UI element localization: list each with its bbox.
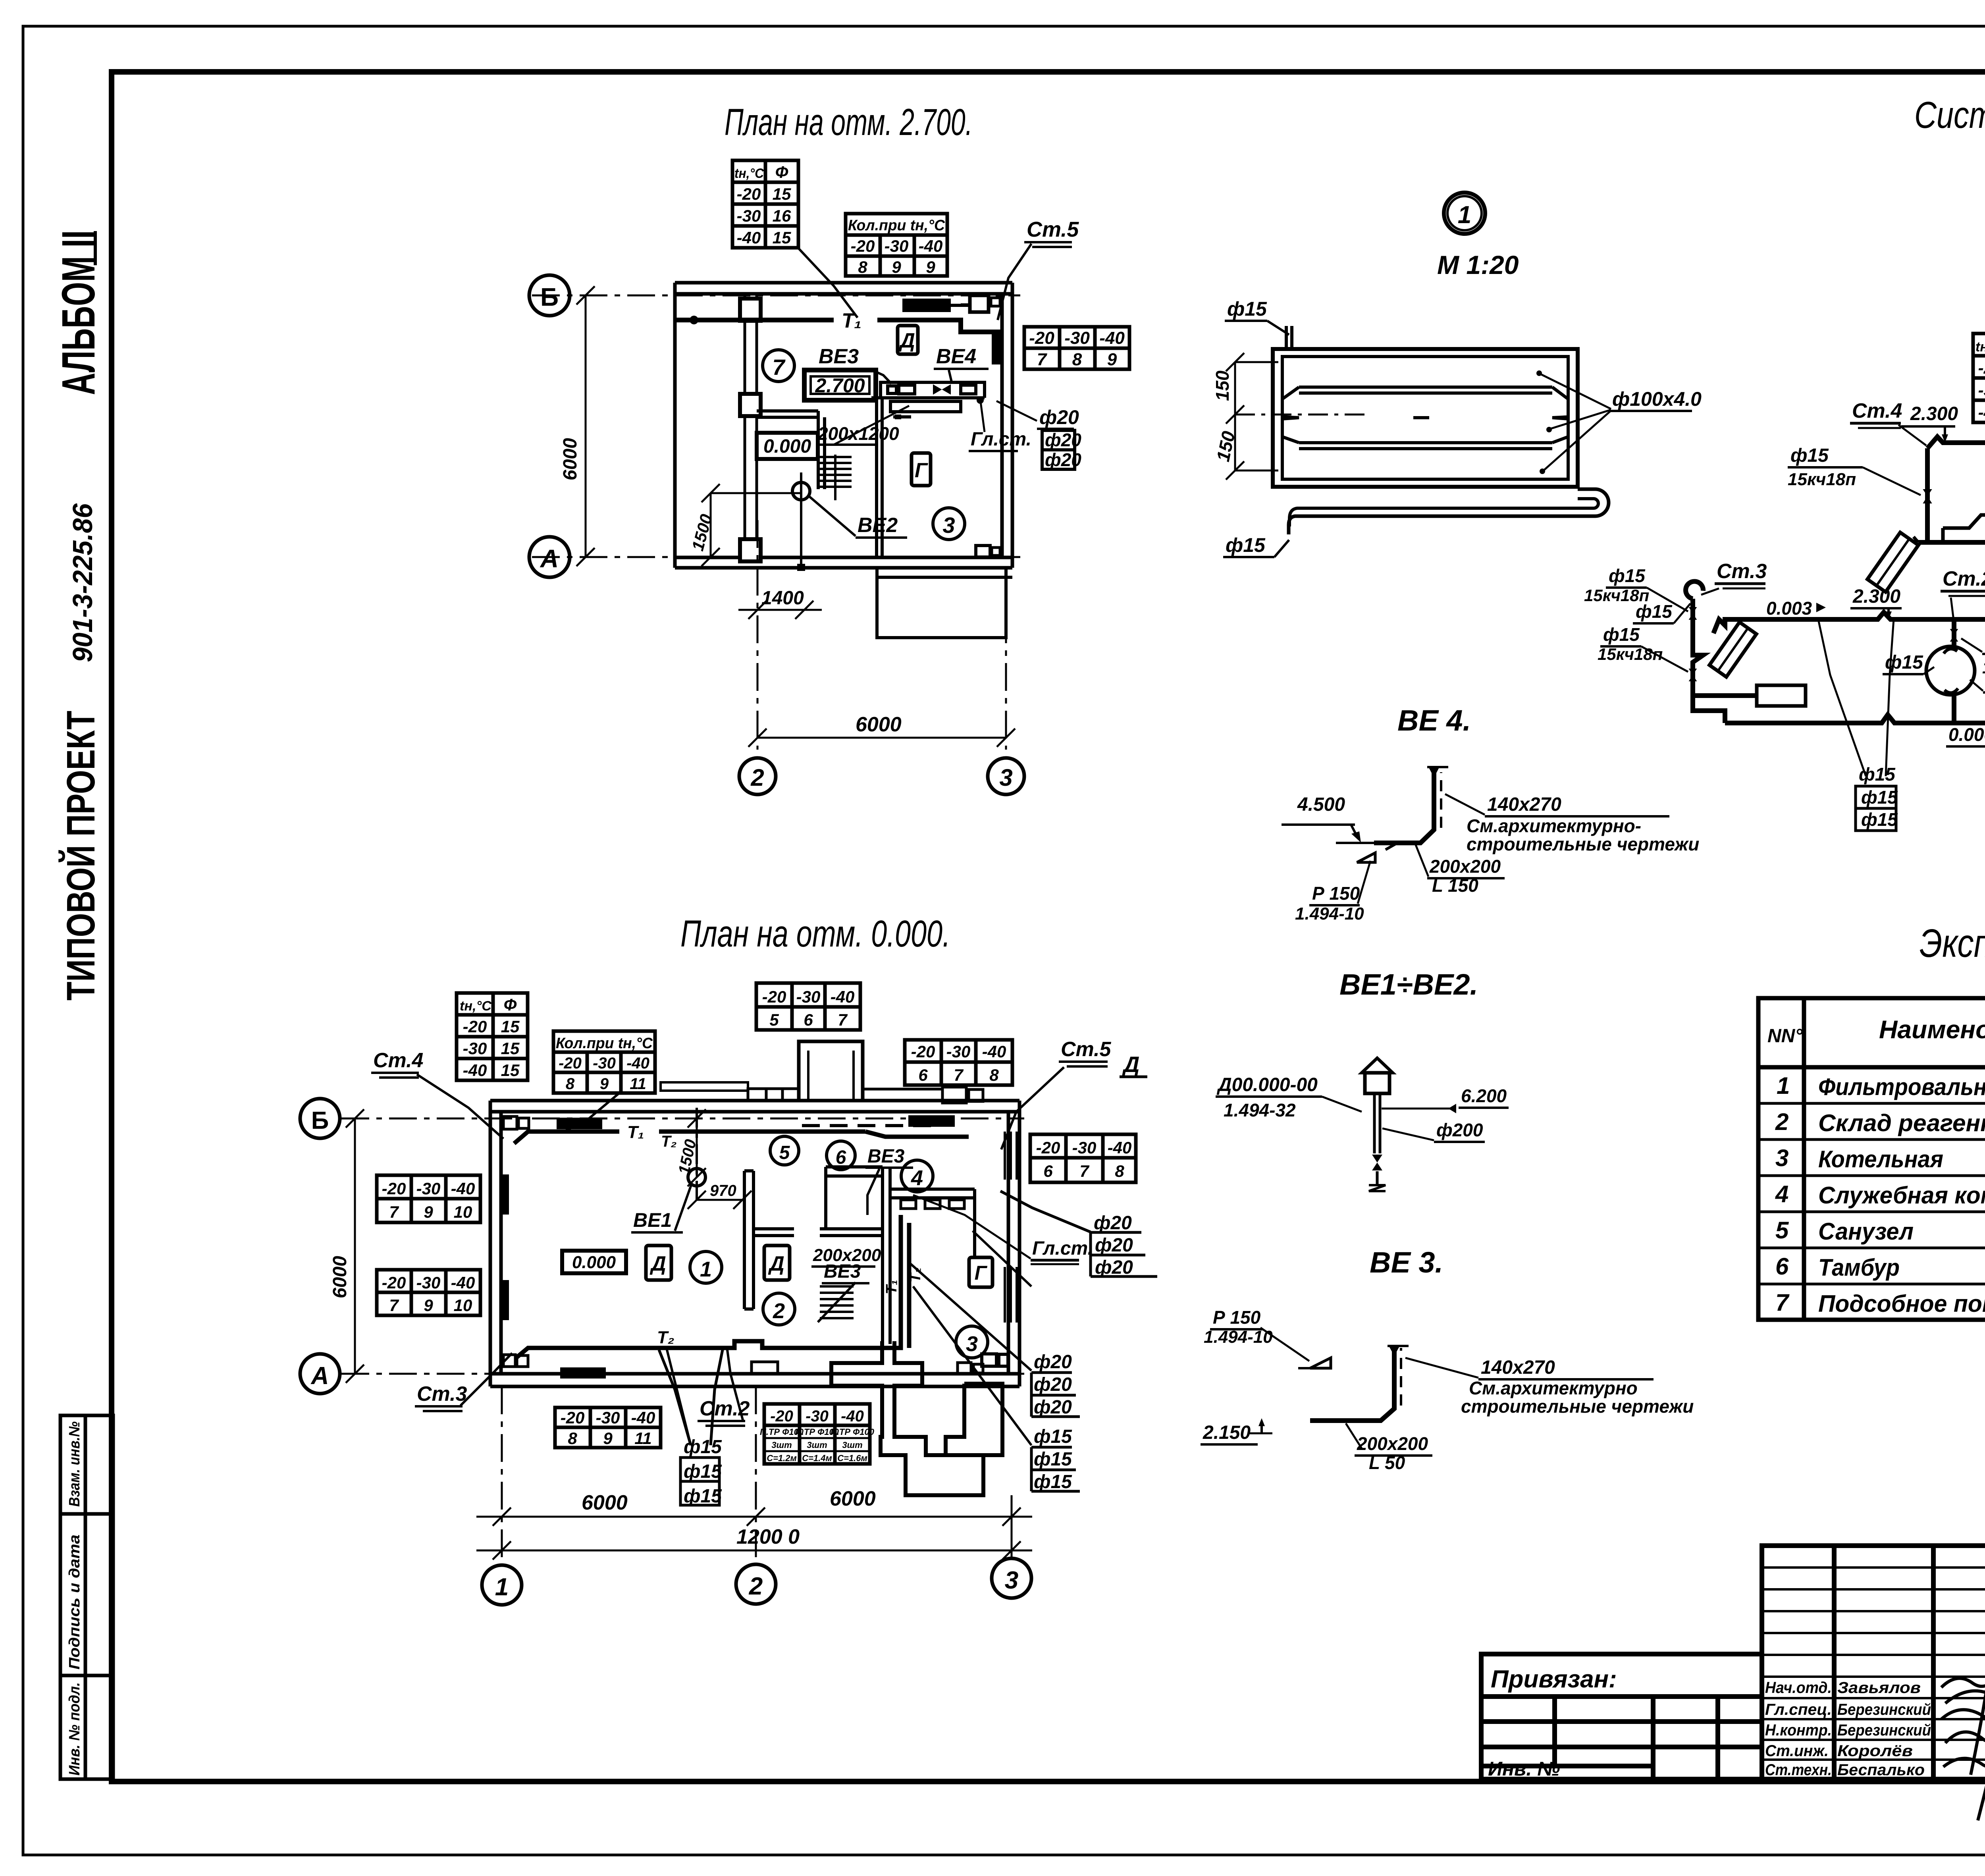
leader from table to pipe	[798, 248, 858, 318]
svg-text:Подсобное помещение: Подсобное помещение	[1818, 1290, 1985, 1317]
svg-text:6000: 6000	[560, 438, 581, 480]
svg-text:6000: 6000	[856, 713, 902, 736]
svg-text:2.700: 2.700	[815, 374, 865, 397]
svg-text:М 1:20: М 1:20	[1437, 250, 1519, 280]
svg-text:А: А	[310, 1362, 329, 1390]
svg-text:200х200: 200х200	[813, 1246, 881, 1265]
svg-text:3: 3	[1005, 1567, 1018, 1594]
svg-text:Котельная: Котельная	[1818, 1146, 1943, 1172]
dim 1500 vertical	[701, 484, 802, 566]
pipe T2 bottom run	[516, 1215, 909, 1358]
dim 6000 bottom	[748, 729, 1015, 747]
svg-text:ф15: ф15	[684, 1461, 722, 1482]
room circle 7	[763, 350, 794, 382]
svg-text:7: 7	[389, 1296, 399, 1315]
svg-text:-20: -20	[737, 185, 761, 203]
vertical dim 6000	[346, 1109, 364, 1383]
svg-text:Гл.спец.: Гл.спец.	[1765, 1701, 1832, 1718]
svg-text:Ст.3: Ст.3	[1717, 560, 1767, 583]
svg-text:-30: -30	[737, 206, 761, 225]
svg-text:8: 8	[568, 1429, 577, 1448]
svg-text:2.300: 2.300	[1852, 586, 1900, 607]
axis line A	[532, 556, 1020, 558]
svg-text:11: 11	[630, 1075, 646, 1093]
svg-text:Беспалько: Беспалько	[1837, 1761, 1925, 1779]
svg-text:9: 9	[892, 258, 901, 276]
elevation 6.200	[1382, 1108, 1453, 1110]
svg-text:Инв. №: Инв. №	[1488, 1758, 1560, 1780]
svg-text:Взам. инв.№: Взам. инв.№	[66, 1421, 83, 1507]
leader diagonals to right stacks	[909, 1231, 1031, 1445]
svg-text:См.архитектурно-: См.архитектурно-	[1467, 816, 1641, 836]
corner boxes bottom-left	[503, 1355, 515, 1367]
room4 lower wall	[890, 1188, 975, 1191]
small table right (-20-30-40/7-8-9)	[1024, 327, 1129, 369]
valve bottom	[1372, 1155, 1382, 1170]
wall black bars left	[499, 1174, 509, 1215]
svg-text:3: 3	[942, 513, 955, 538]
svg-text:ТИПОВОЙ ПРОЕКТ: ТИПОВОЙ ПРОЕКТ	[58, 711, 103, 1001]
svg-text:См.архитектурно: См.архитектурно	[1469, 1378, 1638, 1398]
corner boxes top-left	[503, 1116, 517, 1129]
right wall hatch top	[1005, 1132, 1017, 1323]
flag	[1357, 853, 1375, 862]
svg-text:NN°: NN°	[1767, 1026, 1803, 1047]
radiator (black) top	[902, 299, 951, 312]
svg-text:строительные чертежи: строительные чертежи	[1461, 1396, 1694, 1417]
svg-text:-30: -30	[416, 1273, 441, 1292]
sanitary boxes bottom right	[976, 546, 990, 557]
svg-text:Гл.ст.: Гл.ст.	[971, 429, 1031, 450]
svg-text:10: 10	[454, 1296, 472, 1315]
svg-text:Т₁: Т₁	[842, 309, 861, 332]
svg-text:Экспликация помещений.: Экспликация помещений.	[1919, 921, 1985, 966]
svg-text:6000: 6000	[330, 1256, 351, 1298]
svg-text:Ст.техн.: Ст.техн.	[1765, 1761, 1832, 1779]
svg-text:Наименование помещений: Наименование помещений	[1879, 1015, 1985, 1044]
svg-text:-30: -30	[463, 1039, 487, 1058]
svg-text:Р 150: Р 150	[1312, 883, 1360, 904]
left dim 150/150	[1226, 353, 1370, 480]
svg-text:Д00.000-00: Д00.000-00	[1216, 1074, 1318, 1095]
svg-text:ф15: ф15	[1034, 1449, 1072, 1470]
symbol D	[898, 326, 918, 354]
vent chamber shelf	[871, 382, 985, 398]
elevation 2.700 box	[804, 370, 876, 400]
svg-text:9: 9	[424, 1203, 433, 1221]
svg-text:План на отм. 2.700.: План на отм. 2.700.	[725, 101, 973, 143]
svg-text:8: 8	[1072, 350, 1082, 369]
svg-text:901-3-225.86: 901-3-225.86	[67, 503, 98, 662]
lower appendix room	[877, 568, 1012, 638]
svg-text:Инв. № подл.: Инв. № подл.	[66, 1682, 83, 1776]
title block	[1481, 1546, 1985, 1845]
svg-text:-40: -40	[1978, 403, 1985, 422]
svg-text:Д: Д	[898, 329, 915, 352]
svg-text:ф20: ф20	[1045, 449, 1081, 470]
svg-text:ВЕ1: ВЕ1	[633, 1209, 672, 1231]
symbol G	[912, 453, 931, 486]
svg-text:-30: -30	[946, 1042, 971, 1061]
svg-text:Королёв: Королёв	[1837, 1742, 1913, 1760]
svg-text:Т₁: Т₁	[627, 1122, 644, 1142]
svg-text:Р 150: Р 150	[1213, 1307, 1261, 1328]
svg-text:Служебная комната: Служебная комната	[1818, 1182, 1985, 1209]
radiator R2 parallelogram	[1867, 532, 1918, 592]
wall above room2	[826, 1165, 883, 1168]
svg-text:Гл.ст.: Гл.ст.	[1032, 1238, 1093, 1259]
svg-text:Д: Д	[649, 1252, 666, 1275]
svg-text:8: 8	[989, 1066, 999, 1084]
svg-text:ф15: ф15	[1861, 787, 1898, 808]
dim 1400	[738, 601, 822, 619]
svg-text:9: 9	[926, 258, 935, 276]
svg-text:-40: -40	[451, 1273, 475, 1292]
svg-text:3шт: 3шт	[807, 1440, 827, 1450]
svg-text:3шт: 3шт	[771, 1440, 792, 1450]
svg-text:3: 3	[1775, 1145, 1788, 1171]
svg-text:Фильтровальный зал: Фильтровальный зал	[1818, 1074, 1985, 1100]
detail bubble 1	[1444, 193, 1485, 234]
explication table	[1758, 998, 1985, 1320]
svg-text:10: 10	[454, 1203, 472, 1221]
svg-text:-20: -20	[559, 1055, 582, 1072]
vent valve BE4 (filled)	[933, 384, 951, 395]
svg-text:Ст.4: Ст.4	[373, 1049, 424, 1072]
svg-text:1: 1	[495, 1573, 509, 1601]
svg-text:-40: -40	[919, 237, 943, 255]
svg-text:1.494-10: 1.494-10	[1295, 904, 1364, 924]
svg-text:ф20: ф20	[1095, 1235, 1133, 1256]
svg-text:ВЕ3: ВЕ3	[867, 1146, 905, 1167]
svg-text:С=1.2м: С=1.2м	[767, 1453, 797, 1463]
flag	[1310, 1358, 1331, 1368]
svg-text:-20: -20	[1036, 1138, 1060, 1157]
svg-text:Березинский: Березинский	[1837, 1722, 1931, 1739]
svg-text:Привязан:: Привязан:	[1491, 1666, 1617, 1693]
svg-text:5: 5	[779, 1142, 790, 1163]
white box bottom-mid	[752, 1362, 778, 1374]
grid axis 3 vertical	[1005, 568, 1007, 750]
grid bubble 2	[739, 758, 776, 794]
svg-text:Д: Д	[1122, 1052, 1139, 1077]
svg-text:Т₂: Т₂	[661, 1133, 677, 1150]
svg-text:11: 11	[634, 1429, 652, 1448]
svg-text:200х200: 200х200	[1429, 856, 1501, 877]
svg-text:16: 16	[773, 206, 791, 225]
table left T6	[377, 1175, 480, 1222]
svg-text:ф20: ф20	[1034, 1374, 1072, 1395]
svg-text:2: 2	[750, 764, 764, 791]
svg-text:ф20: ф20	[1034, 1397, 1072, 1418]
svg-text:6.200: 6.200	[1461, 1085, 1507, 1106]
svg-text:Ст.5: Ст.5	[1027, 218, 1079, 241]
svg-text:0.000: 0.000	[763, 436, 811, 457]
stack pole	[1373, 1093, 1376, 1153]
svg-text:С=1.6м: С=1.6м	[837, 1453, 867, 1463]
svg-text:-40: -40	[1108, 1138, 1132, 1157]
wall bottom	[675, 556, 1012, 559]
table tn f schematic	[1973, 334, 1985, 422]
svg-text:ф15: ф15	[1226, 534, 1266, 556]
duct and riser	[1310, 1348, 1394, 1421]
svg-text:200х200: 200х200	[1357, 1433, 1428, 1454]
pipe run 0.000 mid	[1918, 536, 1985, 542]
svg-text:7: 7	[954, 1066, 964, 1084]
svg-text:1400: 1400	[761, 588, 804, 609]
svg-text:7: 7	[838, 1010, 848, 1029]
symbol D mid	[764, 1246, 790, 1280]
duct 200x1200	[890, 401, 961, 412]
svg-text:ф20: ф20	[1039, 406, 1079, 428]
svg-text:6: 6	[1043, 1162, 1053, 1180]
svg-text:6000: 6000	[830, 1487, 876, 1510]
left riser St.3	[1693, 599, 1725, 723]
svg-text:ф15: ф15	[1227, 298, 1267, 320]
svg-text:ф15: ф15	[1609, 565, 1646, 586]
elevation 0.000 box	[757, 433, 818, 459]
symbol G right	[969, 1257, 992, 1287]
BE2 riser symbol	[800, 472, 802, 568]
svg-text:0.000: 0.000	[1948, 724, 1985, 745]
svg-text:6: 6	[918, 1066, 928, 1084]
svg-text:А: А	[540, 544, 559, 573]
svg-text:строительные чертежи: строительные чертежи	[1467, 834, 1699, 854]
svg-text:ф20: ф20	[1034, 1352, 1072, 1373]
svg-text:8: 8	[858, 258, 867, 276]
table bottom T8	[555, 1407, 661, 1448]
radiator body	[1273, 349, 1578, 487]
svg-text:3: 3	[999, 764, 1012, 791]
BE1 riser	[696, 1108, 698, 1203]
elevation 0.000 box	[562, 1251, 626, 1273]
axis line B	[532, 295, 1020, 297]
svg-text:9: 9	[600, 1075, 609, 1093]
svg-text:Кол.при tн,°С: Кол.при tн,°С	[848, 217, 945, 234]
svg-text:-30: -30	[796, 987, 821, 1006]
radiator top-right	[908, 1115, 955, 1127]
pipe run 2.300 upper	[1686, 437, 1985, 723]
top-right canopy boxes	[863, 1087, 983, 1103]
svg-text:ВЕ3: ВЕ3	[819, 345, 859, 368]
table kol.pri plan0	[553, 1031, 655, 1093]
table top center	[756, 983, 860, 1030]
svg-text:2.150: 2.150	[1203, 1422, 1251, 1443]
room4 grilles	[901, 1200, 916, 1209]
svg-text:8: 8	[566, 1075, 575, 1093]
svg-text:ВЕ 3.: ВЕ 3.	[1370, 1246, 1443, 1279]
svg-text:ф20: ф20	[1045, 430, 1081, 450]
svg-text:-40: -40	[451, 1179, 475, 1198]
partition wall 1-2 vertical	[744, 1167, 975, 1344]
svg-text:5: 5	[1775, 1217, 1789, 1244]
svg-text:-20: -20	[561, 1408, 585, 1427]
svg-text:15: 15	[773, 185, 791, 203]
svg-text:ф200: ф200	[1436, 1120, 1483, 1140]
table right T5	[1030, 1134, 1136, 1182]
svg-text:-20: -20	[851, 237, 875, 255]
svg-text:ВЕ 4.: ВЕ 4.	[1397, 704, 1471, 737]
dim line 6000+6000	[476, 1508, 1032, 1526]
table tn/f plan0	[457, 993, 528, 1080]
svg-text:7: 7	[1037, 350, 1048, 369]
svg-text:-20: -20	[382, 1273, 406, 1292]
svg-text:15: 15	[501, 1061, 520, 1080]
grid axis 2 vertical	[757, 520, 759, 750]
wall right	[1000, 294, 1004, 557]
privyazan box	[1481, 1654, 1762, 1779]
leader from St.2 area to f15 stack	[667, 1350, 691, 1445]
canopy band top-left	[661, 1082, 748, 1091]
signature table	[1762, 1546, 1985, 1779]
svg-text:Санузел: Санузел	[1818, 1218, 1914, 1245]
return loop pipe	[1289, 489, 1609, 534]
svg-text:7: 7	[1775, 1289, 1790, 1316]
svg-text:3шт: 3шт	[842, 1440, 862, 1450]
svg-text:15кч18п: 15кч18п	[1788, 470, 1856, 489]
table upper right T4	[905, 1040, 1012, 1085]
svg-text:ф15: ф15	[1861, 809, 1898, 830]
small boxes on foundation	[982, 1354, 996, 1366]
svg-text:3: 3	[966, 1332, 978, 1356]
svg-text:Ст.4: Ст.4	[1852, 399, 1902, 422]
axis line B	[341, 1118, 1024, 1120]
grid axis verticals	[501, 1386, 503, 1564]
leader from kol.pri table	[564, 1093, 619, 1132]
f20 bracket stack lower	[1034, 1352, 1072, 1418]
svg-text:Б: Б	[311, 1107, 329, 1134]
svg-text:7: 7	[772, 355, 786, 380]
svg-text:ВЕ1÷ВЕ2.: ВЕ1÷ВЕ2.	[1339, 968, 1478, 1001]
svg-text:8: 8	[1115, 1162, 1124, 1180]
dim line 12000	[476, 1541, 1032, 1560]
svg-text:6: 6	[804, 1010, 813, 1029]
svg-text:Т₁: Т₁	[883, 1280, 900, 1294]
room circles	[690, 1251, 722, 1283]
pipe T1	[675, 320, 994, 332]
svg-text:ВЕ2: ВЕ2	[858, 514, 898, 537]
svg-text:Березинский: Березинский	[1837, 1701, 1931, 1718]
svg-text:-40: -40	[737, 228, 761, 247]
partition vertical	[817, 411, 820, 489]
svg-text:4.500: 4.500	[1297, 794, 1345, 815]
svg-text:6: 6	[1775, 1253, 1789, 1280]
axis line A	[341, 1373, 1024, 1375]
bottom run 0.000	[1725, 715, 1985, 723]
svg-text:Нач.отд.: Нач.отд.	[1765, 1679, 1832, 1697]
svg-text:Ф: Ф	[775, 163, 788, 181]
svg-text:-30: -30	[1064, 328, 1090, 348]
svg-text:П.ТР Ф100: П.ТР Ф100	[831, 1427, 875, 1437]
inlet pipe top-left	[1286, 326, 1292, 349]
building walls	[490, 1101, 1019, 1386]
svg-text:7: 7	[389, 1203, 399, 1221]
roof vent cap	[1362, 1058, 1393, 1073]
svg-text:2.300: 2.300	[1910, 403, 1958, 424]
axis-2 column pilasters	[740, 294, 761, 561]
svg-text:Г: Г	[975, 1262, 988, 1284]
entry steps top	[748, 1089, 799, 1101]
grid bubbles	[482, 1565, 522, 1605]
svg-text:1: 1	[1777, 1072, 1790, 1099]
svg-text:-20: -20	[463, 1017, 487, 1036]
axis bubble B	[529, 275, 570, 316]
dim 970	[688, 1191, 752, 1209]
svg-text:6: 6	[836, 1147, 846, 1168]
duct and riser	[1336, 842, 1376, 844]
svg-text:ф100x4.0: ф100x4.0	[1612, 388, 1702, 410]
sidebar stamp table	[60, 1415, 113, 1779]
svg-text:ф15: ф15	[1790, 445, 1829, 466]
svg-text:ф15: ф15	[1034, 1426, 1072, 1447]
radiator bottom-left	[560, 1367, 606, 1379]
svg-text:1: 1	[1458, 201, 1471, 229]
svg-text:Ст.3: Ст.3	[417, 1382, 467, 1406]
svg-text:-30: -30	[593, 1055, 616, 1072]
svg-text:Завьялов: Завьялов	[1837, 1679, 1921, 1697]
Ct.2 branch	[1952, 619, 1956, 646]
svg-text:970: 970	[710, 1182, 736, 1199]
svg-text:План на отм. 0.000.: План на отм. 0.000.	[680, 913, 950, 955]
small table kol.pri	[846, 214, 947, 276]
svg-text:-30: -30	[596, 1408, 620, 1427]
small table tn/f	[732, 160, 798, 248]
pipe T1 T2 top run	[514, 1132, 969, 1143]
svg-text:-20: -20	[382, 1179, 406, 1198]
svg-text:-20: -20	[762, 987, 786, 1006]
dashed duct over corridor	[802, 1124, 941, 1127]
svg-text:15: 15	[773, 228, 791, 247]
svg-text:150: 150	[1212, 370, 1233, 401]
svg-text:L 150: L 150	[1432, 875, 1478, 896]
svg-text:Д: Д	[768, 1252, 784, 1275]
svg-text:1: 1	[700, 1257, 712, 1281]
svg-text:-40: -40	[841, 1407, 864, 1425]
svg-text:-40: -40	[1099, 328, 1125, 348]
svg-text:15: 15	[501, 1039, 520, 1058]
foundation cross left	[831, 1341, 983, 1495]
svg-text:tн,°С: tн,°С	[1975, 339, 1985, 355]
svg-text:Ст.2: Ст.2	[1943, 567, 1985, 590]
svg-text:9: 9	[603, 1429, 613, 1448]
dim 1500 BE1	[688, 1109, 706, 1186]
svg-text:4: 4	[1775, 1181, 1788, 1207]
svg-text:ф15: ф15	[1636, 601, 1673, 622]
svg-text:-30: -30	[885, 237, 909, 255]
wall left	[673, 283, 677, 568]
svg-text:15кч18п: 15кч18п	[1598, 645, 1663, 663]
partition wall horizontal	[757, 383, 882, 557]
svg-text:Подпись и дата: Подпись и дата	[66, 1535, 83, 1670]
svg-text:-20: -20	[1978, 359, 1985, 377]
svg-text:9: 9	[1107, 350, 1117, 369]
radiator connect left	[1693, 693, 1757, 698]
foundation block right	[946, 1384, 1002, 1455]
grid bubble 3	[988, 758, 1024, 794]
svg-text:-40: -40	[831, 987, 855, 1006]
svg-text:1.494-32: 1.494-32	[1224, 1100, 1296, 1120]
svg-text:ВЕ4: ВЕ4	[936, 345, 976, 368]
dense table T9	[764, 1404, 870, 1464]
svg-text:tн,°С: tн,°С	[734, 166, 764, 181]
svg-text:-30: -30	[416, 1179, 441, 1198]
svg-text:7: 7	[1079, 1162, 1089, 1180]
room circle 3	[933, 508, 965, 540]
svg-text:4: 4	[911, 1166, 923, 1190]
svg-text:-20: -20	[1029, 328, 1054, 348]
walls: top	[675, 283, 1012, 568]
svg-text:-30: -30	[1072, 1138, 1097, 1157]
